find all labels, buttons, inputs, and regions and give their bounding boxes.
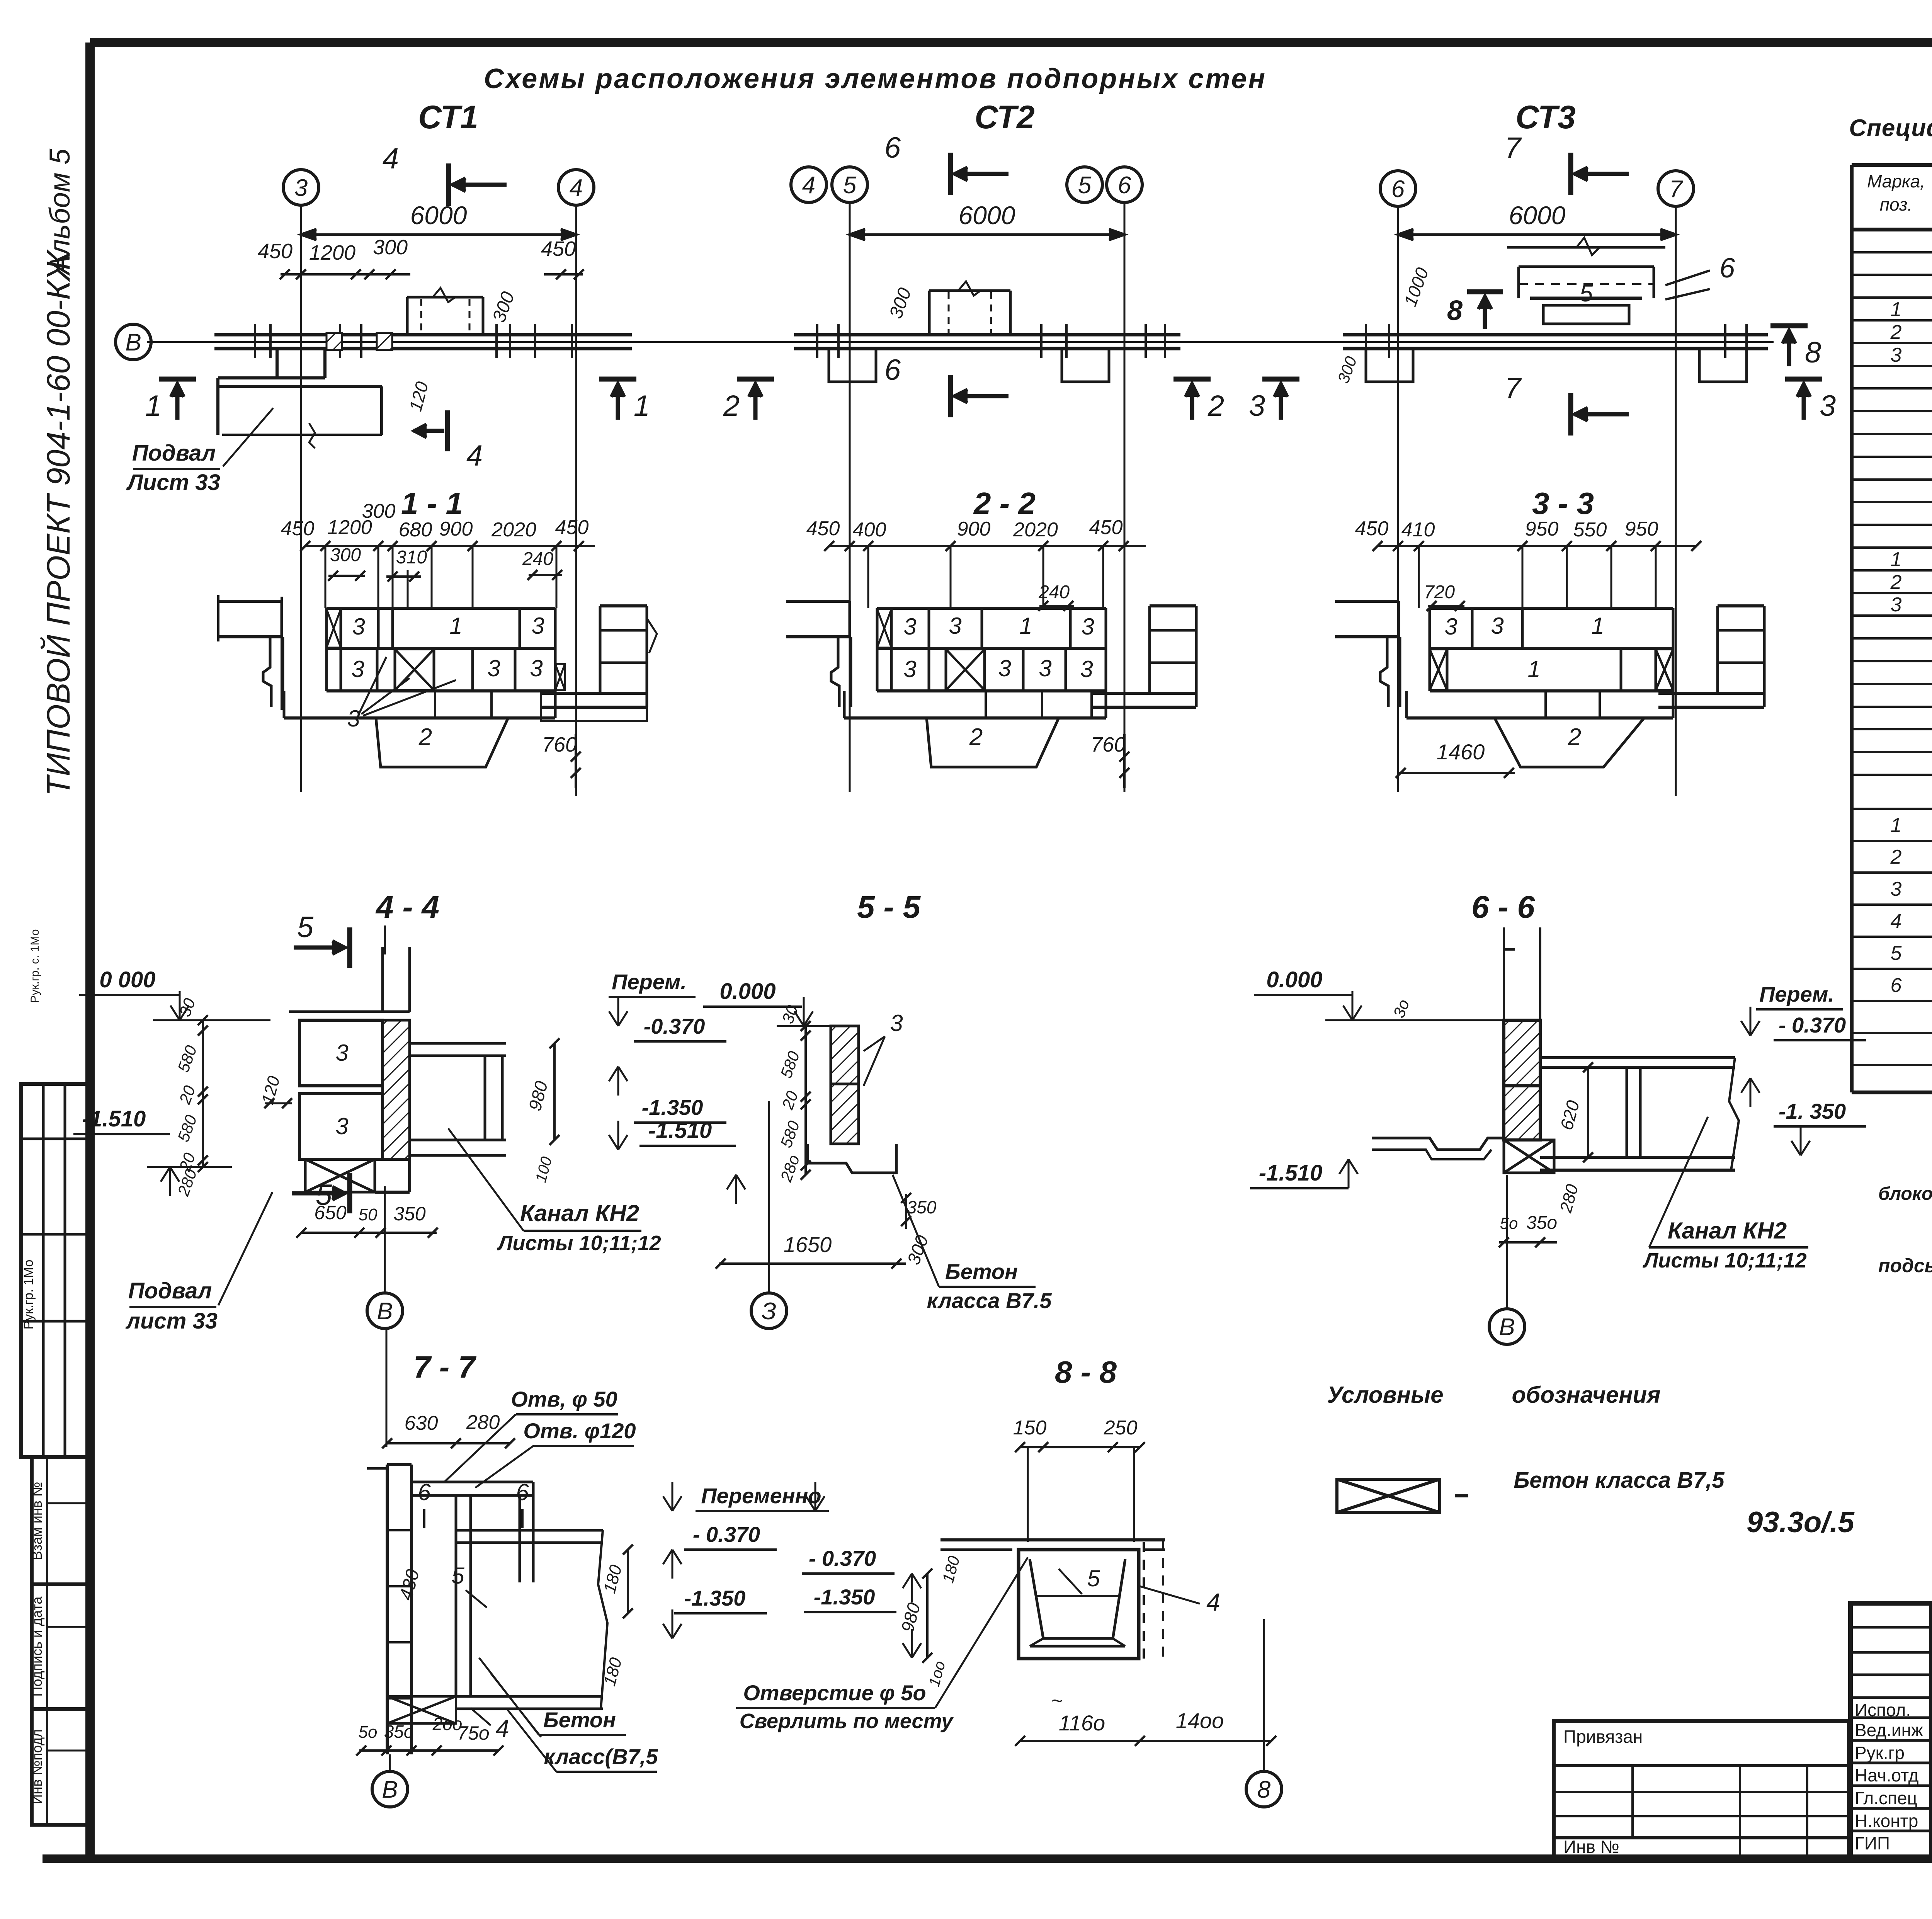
svg-text:4 - 4: 4 - 4 [375,890,439,925]
svg-text:Бетон: Бетон [945,1259,1018,1284]
svg-text:-1.510: -1.510 [1259,1160,1322,1186]
svg-text:450: 450 [1355,517,1389,540]
svg-text:-1.350: -1.350 [642,1095,703,1119]
svg-text:Переменно: Переменно [701,1483,821,1508]
svg-text:116o: 116o [1059,1711,1105,1735]
svg-text:Испол.: Испол. [1855,1700,1911,1720]
svg-text:2: 2 [1207,390,1224,422]
svg-text:2 - 2: 2 - 2 [973,486,1036,521]
svg-text:В: В [382,1776,398,1803]
svg-text:3: 3 [903,614,916,640]
svg-text:7: 7 [1505,131,1522,164]
svg-text:3: 3 [1039,655,1051,681]
svg-text:СТ1: СТ1 [418,99,478,135]
svg-text:6: 6 [516,1479,529,1505]
svg-text:3: 3 [1491,613,1503,639]
svg-text:В: В [377,1298,393,1325]
svg-text:2: 2 [1890,571,1902,594]
svg-text:подсыпка толщиной 100 мм.: подсыпка толщиной 100 мм. [1878,1255,1932,1276]
svg-text:3: 3 [1820,390,1836,422]
svg-text:300: 300 [373,236,408,259]
svg-text:-1. 350: -1. 350 [1779,1099,1846,1123]
svg-text:6: 6 [1391,176,1405,202]
svg-text:0 000: 0 000 [99,967,155,992]
svg-text:Схемы расположения элементов: Схемы расположения элементов подпорных с… [484,63,1267,94]
svg-text:- 0.370: - 0.370 [809,1546,876,1570]
svg-text:550: 550 [1573,519,1607,541]
svg-text:3: 3 [1081,614,1094,640]
svg-text:-1.510: -1.510 [82,1106,146,1131]
svg-text:1: 1 [449,613,462,639]
svg-text:Сверлить по месту: Сверлить по месту [740,1710,954,1733]
svg-text:Подвал: Подвал [132,441,216,466]
svg-text:150: 150 [1013,1417,1047,1439]
svg-text:6 - 6: 6 - 6 [1471,890,1535,925]
svg-text:3: 3 [1444,614,1457,640]
svg-text:760: 760 [542,733,577,756]
svg-text:450: 450 [806,517,840,540]
svg-text:3: 3 [903,656,916,682]
svg-text:класс(В7,5: класс(В7,5 [544,1744,658,1769]
svg-text:0.000: 0.000 [1266,967,1322,992]
svg-text:720: 720 [1424,582,1455,602]
svg-text:3 - 3: 3 - 3 [1532,486,1594,521]
svg-text:ТИПОВОЙ ПРОЕКТ 904-1-60 00-К: ТИПОВОЙ ПРОЕКТ 904-1-60 00-КЖ [40,249,77,796]
svg-text:6: 6 [1891,974,1902,997]
svg-text:3: 3 [530,655,543,681]
svg-text:6: 6 [884,354,901,386]
svg-text:Марка,: Марка, [1867,171,1925,191]
svg-text:450: 450 [555,516,589,539]
svg-text:4: 4 [802,172,815,199]
svg-text:1: 1 [1891,298,1902,321]
svg-text:Вед.инж: Вед.инж [1855,1720,1923,1740]
svg-text:1: 1 [1591,613,1604,639]
svg-text:8 - 8: 8 - 8 [1055,1355,1117,1389]
svg-text:450: 450 [258,240,293,263]
svg-text:Канал КН2: Канал КН2 [520,1200,639,1226]
svg-text:6: 6 [1118,172,1131,199]
svg-text:2: 2 [969,724,983,750]
svg-text:310: 310 [396,547,427,568]
svg-text:3: 3 [294,175,308,201]
svg-text:Привязан: Привязан [1563,1727,1643,1747]
svg-text:450: 450 [281,517,315,540]
svg-text:1650: 1650 [784,1232,832,1257]
svg-text:6000: 6000 [959,201,1015,230]
svg-text:СТ2: СТ2 [975,99,1035,135]
svg-text:З: З [762,1298,776,1325]
svg-text:300: 300 [330,545,361,565]
svg-text:5: 5 [843,172,857,199]
svg-text:Гл.спец: Гл.спец [1855,1788,1917,1808]
svg-text:лист 33: лист 33 [125,1308,218,1334]
svg-text:3: 3 [335,1040,348,1066]
svg-text:680: 680 [399,519,432,541]
svg-text:Рук.гр. с. 1Мо: Рук.гр. с. 1Мо [29,929,41,1003]
svg-text:5: 5 [1891,942,1902,965]
svg-text:Отв. φ120: Отв. φ120 [523,1419,636,1443]
svg-text:-1.350: -1.350 [814,1585,875,1609]
svg-text:2: 2 [723,390,740,422]
svg-text:~: ~ [1051,1690,1062,1711]
svg-text:6: 6 [1719,253,1735,284]
svg-text:5o: 5o [1500,1214,1518,1232]
svg-text:6: 6 [418,1479,431,1505]
svg-text:75o: 75o [457,1722,489,1744]
svg-text:900: 900 [957,518,991,540]
svg-text:4: 4 [383,142,399,175]
svg-text:6000: 6000 [1509,201,1566,230]
svg-text:3: 3 [487,655,500,681]
svg-text:Альбом 5: Альбом 5 [44,148,76,276]
svg-text:- 0.370: - 0.370 [693,1522,760,1546]
svg-text:280: 280 [466,1411,500,1434]
svg-text:5: 5 [1078,172,1092,199]
svg-text:950: 950 [1625,518,1658,540]
svg-text:4: 4 [570,175,583,201]
svg-text:1: 1 [1891,814,1902,837]
svg-text:Инв №подл: Инв №подл [29,1729,45,1804]
svg-text:2: 2 [1890,321,1902,344]
svg-text:Рук.гр. 1Мо: Рук.гр. 1Мо [21,1260,36,1330]
svg-text:3: 3 [1891,594,1902,616]
svg-text:3: 3 [347,706,360,732]
svg-text:350: 350 [393,1203,426,1225]
svg-text:Перем.: Перем. [1759,982,1834,1006]
svg-text:Подпись и дата: Подпись и дата [29,1596,45,1697]
svg-text:3: 3 [1891,878,1902,900]
svg-text:4: 4 [1206,1588,1220,1616]
svg-text:Отв, φ 50: Отв, φ 50 [511,1387,617,1411]
svg-text:3: 3 [949,613,961,639]
svg-text:240: 240 [522,549,553,569]
svg-text:1200: 1200 [327,516,372,539]
svg-text:обозначения: обозначения [1512,1382,1661,1408]
svg-text:Инв №: Инв № [1563,1837,1619,1857]
svg-text:3: 3 [890,1010,903,1036]
svg-text:Бетон класса В7,5: Бетон класса В7,5 [1514,1468,1725,1493]
svg-text:2: 2 [418,724,432,750]
svg-text:93.3o/.5: 93.3o/.5 [1747,1506,1855,1539]
svg-text:6000: 6000 [410,201,467,230]
svg-text:900: 900 [439,518,473,540]
svg-text:8: 8 [1257,1776,1271,1803]
svg-text:-0.370: -0.370 [644,1014,705,1038]
svg-text:Рук.гр: Рук.гр [1855,1743,1905,1763]
svg-text:450: 450 [1089,516,1123,539]
svg-text:3: 3 [1249,390,1265,422]
svg-text:5: 5 [297,911,314,944]
svg-text:14oo: 14oo [1176,1708,1224,1733]
svg-text:1: 1 [1891,548,1902,571]
svg-text:1200: 1200 [309,241,355,264]
svg-text:5 - 5: 5 - 5 [857,890,921,925]
svg-text:Нач.отд: Нач.отд [1855,1765,1919,1785]
svg-text:5: 5 [451,1563,464,1589]
svg-text:Листы 10;11;12: Листы 10;11;12 [497,1232,661,1255]
svg-text:Условные: Условные [1327,1382,1443,1408]
svg-text:3: 3 [352,614,365,640]
svg-text:Листы 10;11;12: Листы 10;11;12 [1642,1249,1806,1272]
svg-text:5: 5 [1087,1565,1100,1591]
svg-text:7 - 7: 7 - 7 [413,1350,477,1384]
svg-text:Спецификация к схеме расположе: Спецификация к схеме расположения элемен… [1849,115,1932,141]
svg-text:5o: 5o [359,1723,378,1742]
svg-text:1: 1 [145,390,162,422]
svg-text:1: 1 [1019,613,1032,639]
svg-text:4: 4 [466,439,483,472]
svg-text:Канал КН2: Канал КН2 [1668,1218,1787,1244]
svg-text:В: В [1499,1314,1515,1341]
svg-text:- 0.370: - 0.370 [1779,1013,1846,1037]
svg-text:4: 4 [495,1715,509,1742]
svg-text:410: 410 [1401,519,1435,541]
svg-text:250: 250 [1104,1417,1138,1439]
svg-text:35o: 35o [384,1722,414,1742]
svg-text:поз.: поз. [1880,194,1913,214]
svg-text:2020: 2020 [1013,519,1058,541]
svg-text:7: 7 [1505,372,1522,405]
svg-text:2020: 2020 [491,519,536,541]
svg-text:3: 3 [1891,344,1902,366]
svg-text:1: 1 [634,390,650,422]
svg-text:Н.контр: Н.контр [1855,1811,1918,1831]
svg-text:2: 2 [1568,724,1581,750]
svg-text:5: 5 [1580,280,1593,307]
svg-text:8: 8 [1805,336,1821,369]
svg-text:класса В7.5: класса В7.5 [927,1288,1052,1313]
svg-text:ГИП: ГИП [1855,1833,1890,1853]
svg-text:Отверстие φ 5o: Отверстие φ 5o [743,1681,926,1705]
svg-text:35o: 35o [1526,1213,1557,1233]
svg-text:Взам инв №: Взам инв № [29,1482,45,1560]
svg-text:1: 1 [1527,656,1540,682]
svg-text:650: 650 [314,1202,347,1223]
svg-text:50: 50 [359,1205,378,1224]
svg-text:350: 350 [907,1197,937,1217]
svg-text:Бетон: Бетон [543,1708,616,1732]
svg-text:2: 2 [1890,846,1902,868]
svg-text:3: 3 [351,656,364,682]
svg-text:СТ3: СТ3 [1515,99,1576,135]
svg-text:4: 4 [1891,910,1902,932]
svg-text:3: 3 [531,613,544,639]
svg-text:6: 6 [884,131,901,164]
svg-text:блоков, укладываемых на цем: блоков, укладываемых на цементно - песча… [1878,1184,1932,1204]
svg-text:3: 3 [998,655,1011,681]
svg-text:Перем.: Перем. [612,970,687,994]
svg-text:1460: 1460 [1437,740,1485,764]
svg-text:3: 3 [335,1113,348,1139]
svg-text:450: 450 [541,237,576,260]
svg-text:1 - 1: 1 - 1 [401,486,463,521]
svg-text:7: 7 [1669,176,1684,202]
svg-text:Подвал: Подвал [128,1278,212,1303]
svg-text:8: 8 [1447,295,1463,326]
svg-text:Лист 33: Лист 33 [126,470,220,495]
svg-text:-1.510: -1.510 [648,1118,712,1143]
svg-text:400: 400 [853,519,886,541]
svg-text:630: 630 [405,1412,438,1434]
svg-text:950: 950 [1525,518,1559,540]
svg-text:В: В [125,329,141,356]
svg-text:3: 3 [1080,656,1093,682]
svg-text:760: 760 [1091,733,1126,756]
svg-text:0.000: 0.000 [719,979,776,1004]
svg-text:-1.350: -1.350 [684,1586,746,1610]
